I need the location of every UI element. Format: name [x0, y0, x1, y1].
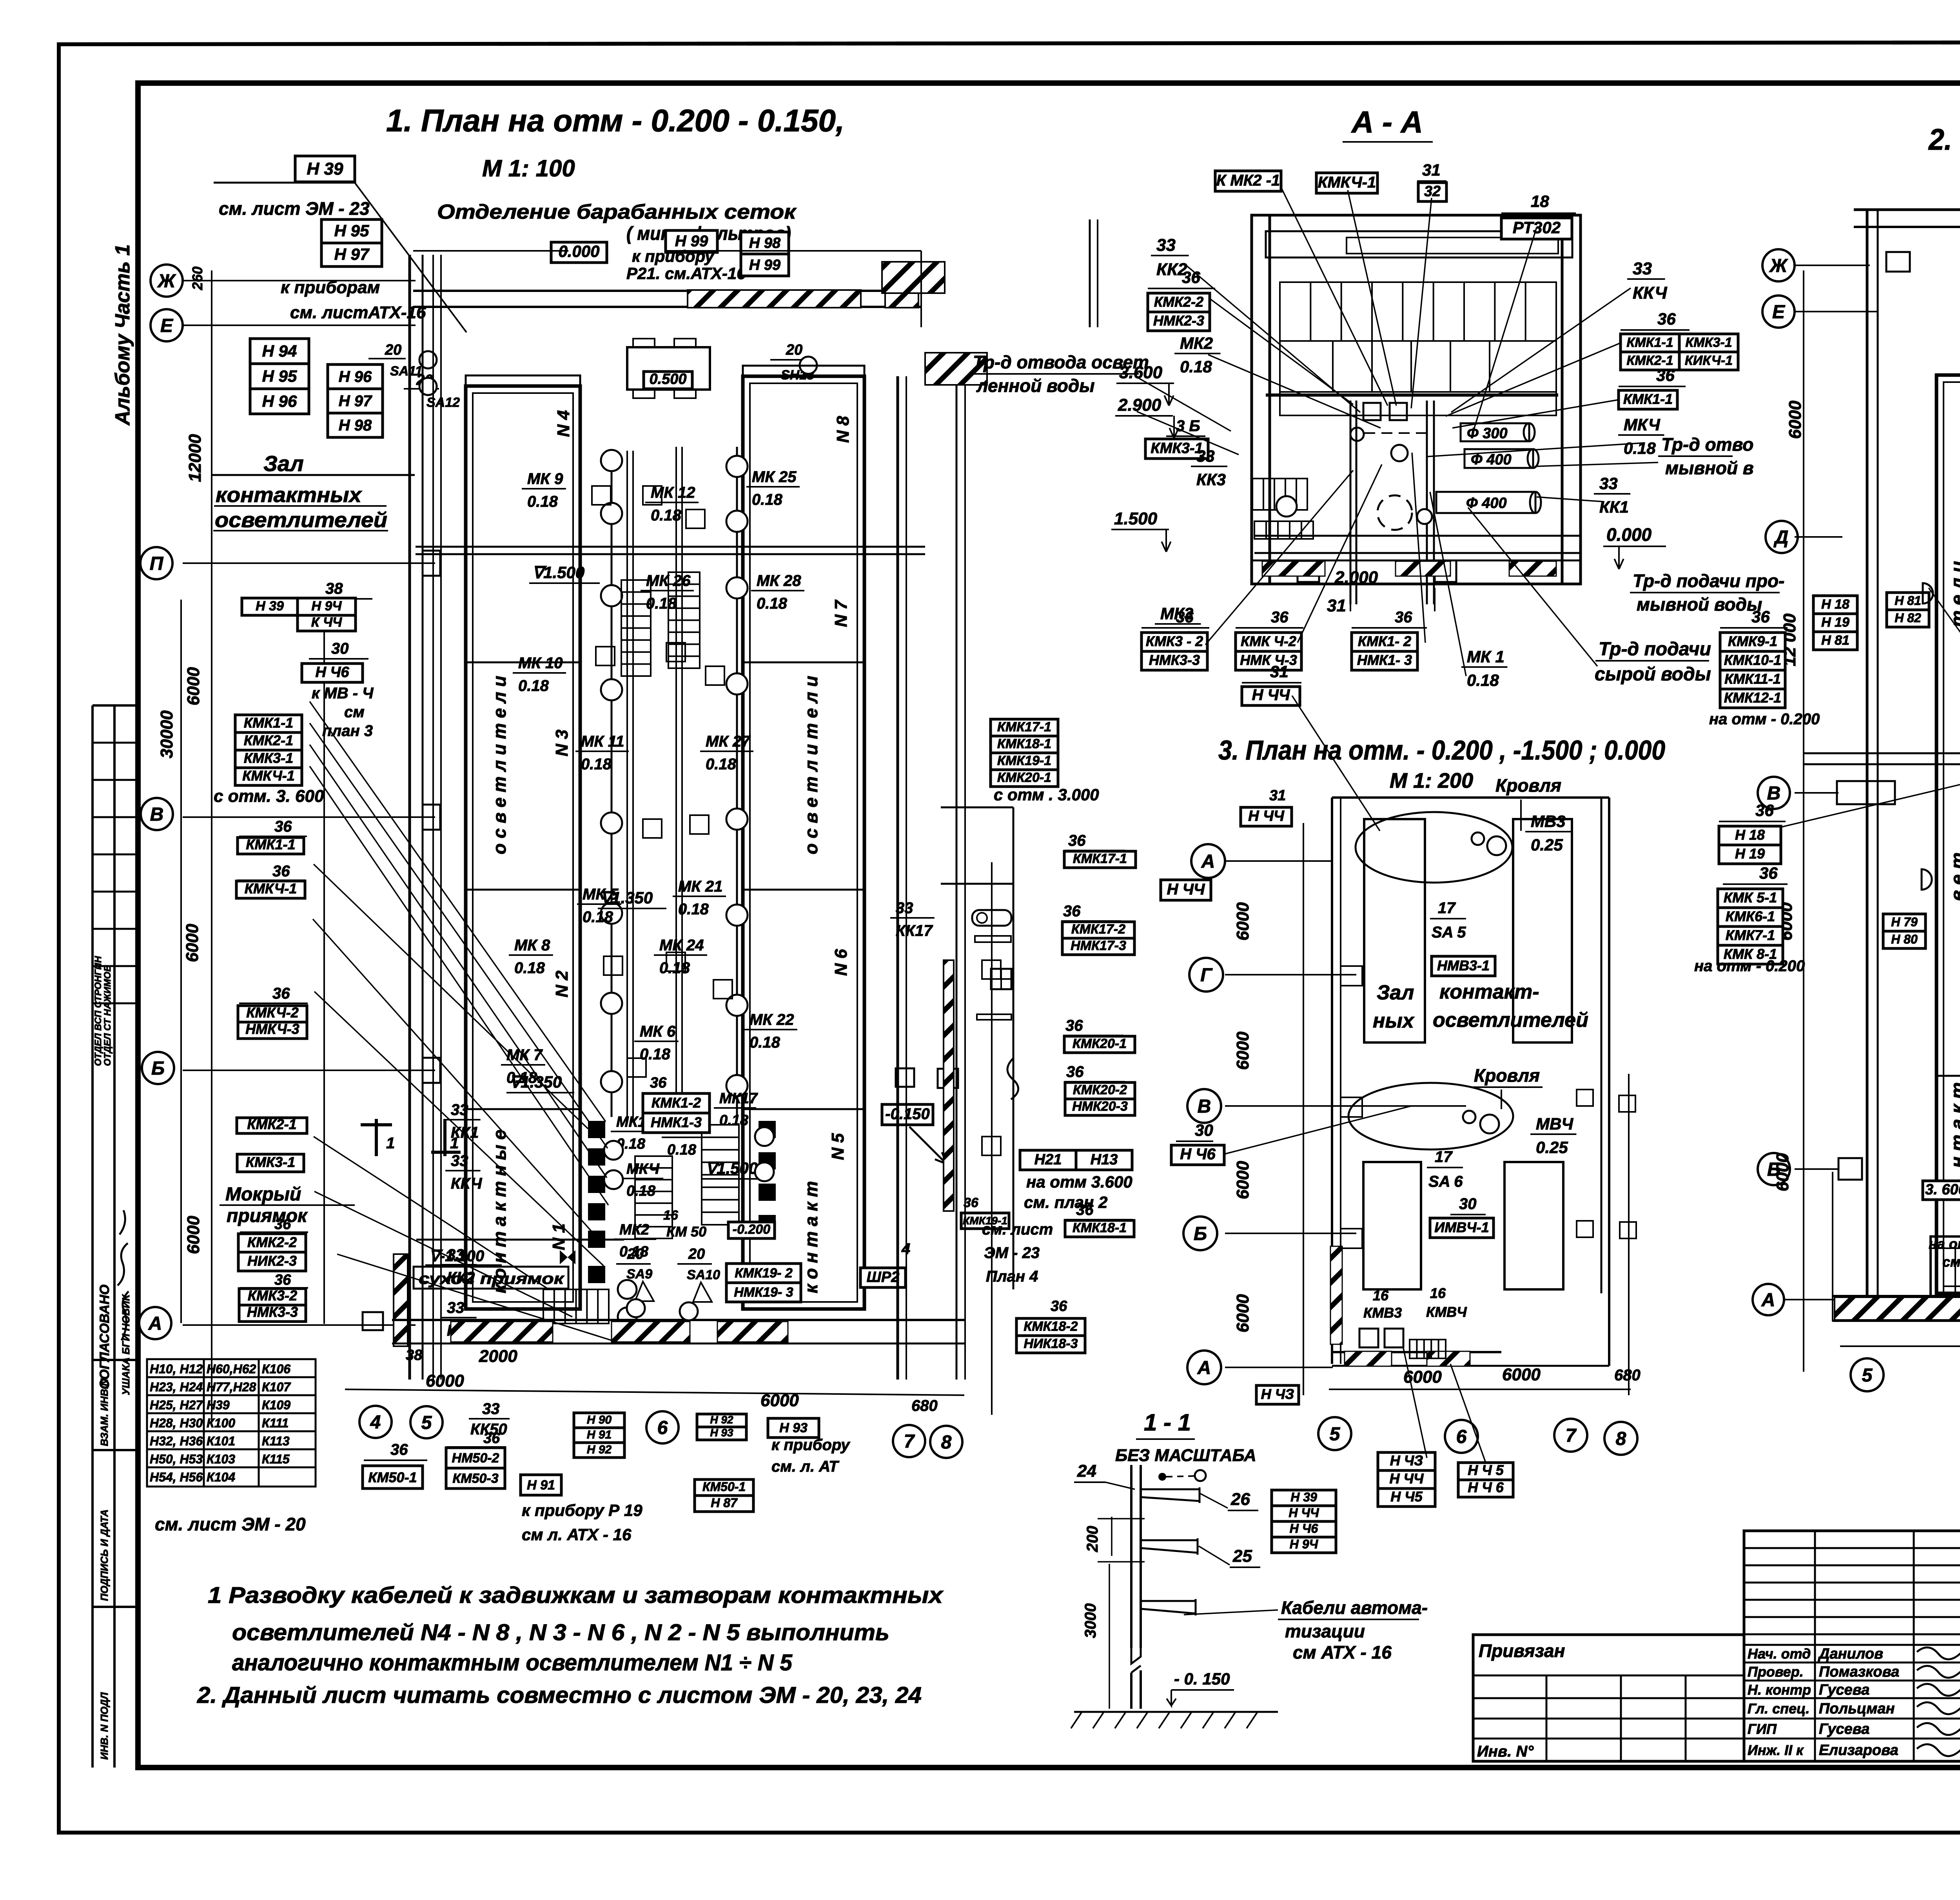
plan1 stair block C — [635, 1156, 672, 1238]
plan1 left hall dividers — [466, 662, 580, 664]
svg-text:38: 38 — [325, 580, 343, 597]
plan3 krovlya oval top — [1356, 812, 1512, 883]
plan1 top right wall verticals — [1089, 219, 1091, 327]
plan3 grid bubble A top — [1191, 844, 1225, 878]
detail boxes H39 H44 H46 H94 — [1272, 1490, 1336, 1506]
svg-text:ОТДЕЛ СТ НАЖИМОВ: ОТДЕЛ СТ НАЖИМОВ — [102, 965, 113, 1066]
svg-text:Б: Б — [151, 1058, 165, 1079]
svg-text:Кровля: Кровля — [1474, 1065, 1540, 1086]
svg-text:Е: Е — [1772, 302, 1786, 323]
svg-text:0.18: 0.18 — [527, 493, 558, 510]
plan2 grid bubble Б — [1758, 1153, 1790, 1185]
svg-text:Н ЧЧ: Н ЧЧ — [1252, 687, 1290, 704]
svg-text:Гл. спец.: Гл. спец. — [1748, 1701, 1809, 1717]
plan1 top inner line — [413, 250, 568, 252]
svg-text:МК 21: МК 21 — [678, 878, 723, 895]
svg-text:Н. контр: Н. контр — [1748, 1682, 1811, 1698]
plan1 black valve squares right — [759, 1121, 776, 1138]
svg-text:5: 5 — [1330, 1424, 1341, 1445]
svg-text:КМК18-1: КМК18-1 — [997, 736, 1051, 751]
svg-text:0.18: 0.18 — [640, 1046, 671, 1063]
svg-text:6: 6 — [1456, 1427, 1467, 1447]
plan3 H43 box — [1256, 1385, 1299, 1404]
svg-text:6000: 6000 — [184, 1216, 203, 1254]
svg-text:к МВ - Ч: к МВ - Ч — [312, 685, 374, 702]
svg-text:Н ЧЧ: Н ЧЧ — [1167, 881, 1205, 898]
svg-text:Тр-д отво: Тр-д отво — [1661, 434, 1753, 455]
svg-text:КМК1-1: КМК1-1 — [244, 714, 293, 731]
svg-text:КМК17-1: КМК17-1 — [1073, 851, 1127, 866]
svg-text:КМК1- 2: КМК1- 2 — [1358, 633, 1411, 649]
svg-text:31: 31 — [1269, 787, 1286, 804]
plan3 hall rect lower left — [1363, 1162, 1421, 1289]
svg-text:0.18: 0.18 — [646, 595, 677, 612]
svg-text:6: 6 — [657, 1418, 668, 1438]
svg-text:3. 600: 3. 600 — [1925, 1182, 1960, 1198]
svg-text:Н 92: Н 92 — [710, 1414, 733, 1426]
svg-text:12000: 12000 — [185, 434, 205, 482]
svg-text:КМК11-1: КМК11-1 — [1724, 671, 1781, 687]
plan2 H81 H82 boxes — [1887, 593, 1929, 610]
svg-text:КМК17-2: КМК17-2 — [1071, 922, 1125, 937]
svg-text:МВ3: МВ3 — [1531, 812, 1566, 830]
svg-text:0.18: 0.18 — [752, 491, 783, 508]
svg-text:Нач. отд: Нач. отд — [1748, 1646, 1811, 1662]
svg-text:на отм - 0.200: на отм - 0.200 — [1709, 711, 1820, 728]
svg-text:31: 31 — [1327, 596, 1346, 615]
svg-text:КМ50-1: КМ50-1 — [368, 1469, 417, 1485]
svg-text:Н13: Н13 — [1091, 1151, 1118, 1168]
svg-text:31: 31 — [1270, 662, 1289, 681]
svg-text:А: А — [1201, 851, 1215, 872]
plan2 left wall double — [1866, 210, 1869, 1321]
svg-text:ОТДЕЛ ВСП СТРОНГИН: ОТДЕЛ ВСП СТРОНГИН — [93, 956, 103, 1066]
svg-text:К115: К115 — [262, 1452, 290, 1466]
svg-text:НМК3-3: НМК3-3 — [1149, 652, 1200, 668]
plan1 bottom hatch pieces — [451, 1322, 553, 1342]
svg-text:0.000: 0.000 — [1606, 524, 1652, 545]
svg-text:к о н т а к т: к о н т а к т — [801, 1181, 821, 1293]
svg-text:М 1: 200: М 1: 200 — [1390, 769, 1473, 792]
svg-text:КМК19-1: КМК19-1 — [997, 753, 1051, 768]
svg-text:32: 32 — [1424, 183, 1441, 200]
svg-text:0.18: 0.18 — [706, 756, 737, 773]
plan3 left wall hatch — [1330, 1246, 1342, 1344]
svg-text:∇1.350: ∇1.350 — [510, 1073, 562, 1091]
svg-text:КМ 50: КМ 50 — [666, 1224, 706, 1240]
plan1 black bowtie symbols — [560, 1250, 575, 1264]
svg-text:на отм - 0.200: на отм - 0.200 — [1694, 957, 1805, 975]
svg-text:ВЗАМ. ИНВ.N: ВЗАМ. ИНВ.N — [98, 1378, 110, 1446]
svg-text:33: 33 — [482, 1400, 500, 1418]
svg-text:1. План на отм - 0.200 - 0: 1. План на отм - 0.200 - 0.150, — [386, 103, 844, 138]
plan1 column bubble 8 — [930, 1426, 962, 1458]
svg-text:КМК10-1: КМК10-1 — [1724, 652, 1781, 668]
svg-text:Н77,Н28: Н77,Н28 — [207, 1380, 256, 1394]
svg-text:с отм. 3. 600: с отм. 3. 600 — [214, 787, 324, 806]
svg-text:25: 25 — [1232, 1546, 1252, 1566]
svg-text:см. лист ЭМ - 20: см. лист ЭМ - 20 — [155, 1514, 306, 1534]
svg-text:N 5: N 5 — [828, 1133, 848, 1160]
plan1 stair block A — [621, 580, 651, 676]
detail cable hook symbols — [1158, 1473, 1166, 1481]
plan1 section cut marks 1-1 — [361, 1119, 461, 1156]
svg-text:36: 36 — [274, 1272, 291, 1288]
svg-text:6000: 6000 — [760, 1391, 799, 1410]
svg-text:КМК3-1: КМК3-1 — [246, 1154, 295, 1170]
svg-text:Н 39: Н 39 — [1290, 1490, 1317, 1504]
svg-text:6000: 6000 — [1786, 401, 1805, 439]
plan1 bottom KMK19-2 boxes — [726, 1264, 801, 1283]
svg-text:Н 95: Н 95 — [334, 221, 369, 240]
svg-text:КМК18-1: КМК18-1 — [1073, 1220, 1127, 1235]
svg-text:ИНВ. N ПОДЛ: ИНВ. N ПОДЛ — [98, 1692, 110, 1760]
svg-text:Н28, Н30: Н28, Н30 — [150, 1416, 203, 1430]
svg-text:МК 9: МК 9 — [527, 470, 563, 488]
svg-text:МК17: МК17 — [719, 1090, 758, 1107]
svg-text:0.18: 0.18 — [667, 1142, 697, 1158]
svg-text:Н 9Ч: Н 9Ч — [312, 599, 342, 614]
svg-text:36: 36 — [650, 1075, 667, 1091]
svg-text:ИМВЧ-1: ИМВЧ-1 — [1434, 1219, 1489, 1235]
svg-text:5: 5 — [421, 1412, 432, 1433]
svg-text:тизации: тизации — [1285, 1621, 1365, 1641]
svg-text:в е т: в е т — [1947, 852, 1960, 901]
svg-text:к о н т а к т н ы е: к о н т а к т н ы е — [489, 1129, 510, 1293]
svg-text:36: 36 — [1066, 1063, 1084, 1081]
svg-text:36: 36 — [1182, 268, 1200, 286]
svg-text:Н50, Н53: Н50, Н53 — [150, 1452, 203, 1466]
svg-text:Н 92: Н 92 — [587, 1443, 612, 1456]
svg-text:П: П — [150, 553, 164, 574]
plan1 bottom small square — [363, 1312, 383, 1330]
svg-text:КМКЧ-1: КМКЧ-1 — [245, 881, 297, 897]
svg-text:N 8: N 8 — [833, 416, 853, 443]
svg-text:КМК3-1: КМК3-1 — [244, 750, 293, 766]
plan1 grid bubble П — [140, 547, 172, 579]
svg-text:сухой приямок: сухой приямок — [419, 1270, 564, 1287]
svg-text:Д: Д — [1773, 527, 1789, 548]
plan3 motor MV4 — [1463, 1111, 1475, 1123]
title block outer — [1473, 1531, 1960, 1761]
svg-text:К100: К100 — [207, 1416, 235, 1430]
svg-text:М 1: 100: М 1: 100 — [482, 155, 575, 181]
plan3 grid bubble Г — [1189, 958, 1223, 992]
svg-text:7: 7 — [1566, 1425, 1577, 1446]
plan1 boxes H94 H95 H96 — [250, 339, 309, 364]
left sidebar column lines — [93, 705, 138, 1768]
svg-text:МК 8: МК 8 — [514, 937, 550, 954]
svg-text:Н 99: Н 99 — [749, 257, 780, 273]
plan1 boxes H96 H97 H98 — [328, 364, 383, 389]
svg-text:Н 87: Н 87 — [711, 1496, 738, 1510]
svg-text:мывной в: мывной в — [1665, 458, 1754, 478]
detail ground line with hatch — [1074, 1711, 1278, 1713]
plan3 hall rect lower right — [1504, 1162, 1563, 1289]
plan2 grid bubble Д — [1766, 521, 1798, 553]
plan3 right squares on wall — [1577, 1090, 1593, 1106]
svg-text:НМК20-3: НМК20-3 — [1072, 1099, 1128, 1114]
plan1 left dimension line vertical — [211, 270, 212, 1423]
svg-text:Н ЧЧ: Н ЧЧ — [1289, 1506, 1319, 1520]
svg-text:26: 26 — [1230, 1490, 1250, 1509]
svg-text:8: 8 — [1616, 1429, 1626, 1449]
plan2 dim vertical line — [1803, 270, 1804, 1372]
svg-text:Н 97: Н 97 — [339, 393, 372, 410]
svg-text:приямок: приямок — [227, 1206, 308, 1226]
svg-text:Н 79: Н 79 — [1891, 915, 1918, 929]
svg-text:Н Ч6: Н Ч6 — [1180, 1146, 1216, 1163]
svg-text:4: 4 — [370, 1412, 381, 1433]
svg-text:6000: 6000 — [426, 1371, 464, 1391]
plan1 row lines from bubbles — [183, 281, 435, 1325]
svg-text:Р21. см.АТХ-16: Р21. см.АТХ-16 — [626, 264, 746, 283]
plan3 right cable line — [1628, 1074, 1630, 1395]
svg-text:36: 36 — [1176, 609, 1194, 626]
svg-text:0.18: 0.18 — [719, 1112, 749, 1129]
plan1 leader lines from left margin to center — [310, 183, 612, 1340]
plan1 bottom H92 H93 boxes — [697, 1414, 746, 1427]
plan1 right cable vertical — [991, 862, 993, 1415]
svg-text:6000: 6000 — [1502, 1365, 1541, 1384]
svg-text:КМКЧ-2: КМКЧ-2 — [246, 1004, 299, 1021]
svg-text:Отделение барабанных сеток: Отделение барабанных сеток — [437, 201, 797, 223]
svg-text:Тр-д подачи про-: Тр-д подачи про- — [1633, 571, 1784, 591]
svg-text:КМК2-2: КМК2-2 — [247, 1234, 297, 1250]
svg-text:2. План на отм. 3. 600: 2. План на отм. 3. 600 — [1928, 123, 1960, 156]
sidebar signatures scribble — [118, 1210, 129, 1340]
svg-text:36: 36 — [274, 818, 292, 835]
svg-text:см АТХ - 16: см АТХ - 16 — [1293, 1642, 1392, 1662]
svg-text:Помазкова: Помазкова — [1819, 1664, 1899, 1680]
svg-text:6000: 6000 — [183, 924, 202, 962]
section gate squares — [1363, 403, 1381, 420]
svg-text:см л. АТХ - 16: см л. АТХ - 16 — [522, 1525, 632, 1544]
svg-text:0.18: 0.18 — [659, 959, 690, 977]
plan1 side room zigzag break — [1007, 1058, 1018, 1099]
svg-text:6000: 6000 — [1233, 1161, 1252, 1199]
svg-text:- 0. 150: - 0. 150 — [1174, 1670, 1230, 1688]
plan1 level -0.150 box — [882, 1104, 933, 1125]
svg-text:см: см — [344, 703, 365, 721]
svg-text:Н 39: Н 39 — [307, 160, 343, 179]
svg-text:контакт-: контакт- — [1439, 981, 1539, 1003]
svg-text:МК 6: МК 6 — [640, 1023, 676, 1040]
section inner grid top — [1280, 282, 1556, 415]
svg-text:Н 18: Н 18 — [1821, 597, 1849, 612]
svg-text:МК 1: МК 1 — [1467, 647, 1504, 666]
svg-text:МК 28: МК 28 — [757, 572, 801, 589]
plan1 top right hatched wall piece B — [925, 353, 987, 385]
svg-text:36: 36 — [1068, 832, 1086, 849]
svg-text:мывной воды: мывной воды — [1637, 594, 1762, 615]
svg-text:6000: 6000 — [184, 667, 203, 705]
plan3 dim vertical line — [1303, 823, 1304, 1395]
plan1 black valve squares left — [588, 1121, 605, 1138]
plan1 sukhoy priyamok floor line — [416, 1239, 624, 1241]
svg-text:КМК20-2: КМК20-2 — [1073, 1082, 1127, 1097]
svg-text:36: 36 — [1065, 1017, 1083, 1034]
svg-text:НМК1- 3: НМК1- 3 — [1357, 652, 1412, 668]
plan1 stair block B — [668, 572, 700, 668]
svg-text:31: 31 — [1422, 161, 1441, 179]
plan1 bottom H93 box — [768, 1418, 819, 1438]
plan3 bubble 8 — [1604, 1422, 1637, 1455]
svg-text:План 4: План 4 — [986, 1268, 1038, 1285]
svg-text:НМК3-3: НМК3-3 — [247, 1304, 298, 1320]
plan2 diag leader top — [1929, 588, 1960, 760]
plan1 grid bubble А — [139, 1307, 171, 1339]
svg-text:Н 95: Н 95 — [262, 367, 297, 385]
svg-text:МК 24: МК 24 — [659, 937, 704, 954]
svg-text:Н21: Н21 — [1034, 1151, 1062, 1168]
svg-text:Альбому Часть 1: Альбому Часть 1 — [111, 244, 134, 426]
svg-text:аналогично контактным осв: аналогично контактным осветлителем N1 ÷ … — [232, 1650, 793, 1675]
svg-text:КМКЧ-1: КМКЧ-1 — [1318, 174, 1376, 191]
svg-text:3 Б: 3 Б — [1176, 417, 1200, 435]
svg-text:НМК17-3: НМК17-3 — [1071, 938, 1126, 953]
svg-text:КМК9-1: КМК9-1 — [1728, 633, 1777, 649]
svg-text:Н 97: Н 97 — [334, 245, 370, 263]
svg-text:N 7: N 7 — [831, 599, 851, 627]
svg-text:МК 11: МК 11 — [581, 733, 624, 750]
svg-text:Данилов: Данилов — [1818, 1646, 1883, 1662]
svg-text:Ж: Ж — [157, 271, 176, 292]
svg-text:Г: Г — [1200, 965, 1213, 986]
plan3 hall rect upper right — [1513, 819, 1572, 1042]
svg-text:Н ЧЗ: Н ЧЗ — [1390, 1452, 1423, 1469]
svg-text:КМК3-1: КМК3-1 — [1151, 440, 1203, 457]
svg-text:SA12: SA12 — [426, 395, 460, 410]
plan1 central pipe column left — [611, 451, 613, 1117]
svg-text:Н 91: Н 91 — [587, 1428, 612, 1441]
plan3 pilasters — [1341, 966, 1362, 986]
plan3 grid bubble Б — [1183, 1217, 1217, 1250]
svg-text:К МК2 -1: К МК2 -1 — [1216, 172, 1280, 189]
svg-text:МК2: МК2 — [619, 1222, 649, 1238]
plan2 left margin KMK5 stack — [1718, 889, 1783, 908]
svg-text:36: 36 — [1051, 1298, 1067, 1314]
section top beam band — [1266, 231, 1572, 257]
plan1 lower small circles — [604, 1141, 623, 1160]
svg-text:0.18: 0.18 — [678, 901, 709, 918]
svg-text:36: 36 — [1395, 609, 1412, 626]
plan1 side room pilaster square — [938, 1069, 958, 1088]
plan1 column bubble 4 — [359, 1406, 392, 1438]
svg-text:Н 82: Н 82 — [1895, 611, 1921, 625]
plan2 grid bubble В — [1758, 777, 1790, 809]
svg-text:А: А — [1197, 1358, 1211, 1378]
svg-text:24: 24 — [1077, 1461, 1096, 1481]
plan3 motor MV3 — [1472, 832, 1484, 845]
svg-text:о с в е т л и т е л и: о с в е т л и т е л и — [801, 676, 821, 854]
plan3 bottom leaders — [1403, 1348, 1427, 1458]
plan1 right hall dividers — [743, 662, 864, 664]
plan3 box NMV3-1 — [1432, 956, 1495, 976]
plan3 label H44 top leader — [1241, 807, 1292, 826]
plan1 left hall outer — [466, 386, 580, 1309]
plan3 top wall — [1332, 796, 1609, 799]
svg-text:Инв. N°: Инв. N° — [1477, 1743, 1534, 1760]
section bottom floor lines — [1254, 535, 1580, 537]
plan1 level -0.200 box — [728, 1222, 775, 1238]
plan2 bottom wall hatch band — [1833, 1295, 1960, 1297]
svg-text:N 1: N 1 — [549, 1224, 568, 1250]
svg-text:осветлителей: осветлителей — [215, 508, 387, 532]
svg-text:Н 98: Н 98 — [749, 235, 781, 251]
plan1 boxes H98 H99 right — [741, 232, 789, 254]
svg-text:на отм - 0.200: на отм - 0.200 — [1929, 1236, 1960, 1252]
svg-text:КМ50-3: КМ50-3 — [452, 1471, 498, 1486]
svg-text:-0.150: -0.150 — [885, 1105, 929, 1122]
plan2 H79 H80 boxes — [1883, 914, 1926, 931]
plan1 stair block D — [702, 1125, 739, 1225]
section valve circles — [1391, 445, 1408, 461]
plan3 bubble 7 — [1554, 1419, 1587, 1452]
svg-text:КМВЧ: КМВЧ — [1426, 1304, 1467, 1320]
plan1 right hall outer — [743, 376, 864, 1309]
title block signatures scribbles — [1917, 1648, 1960, 1756]
svg-text:КМК20-1: КМК20-1 — [1073, 1036, 1127, 1051]
svg-text:36: 36 — [1063, 903, 1081, 920]
plan1 top right hatched wall piece A — [882, 262, 945, 293]
svg-text:Н25, Н27: Н25, Н27 — [150, 1398, 203, 1412]
svg-text:НМК Ч-3: НМК Ч-3 — [1240, 652, 1297, 668]
svg-text:∇1.500: ∇1.500 — [706, 1159, 758, 1177]
svg-text:МКЧ: МКЧ — [626, 1161, 660, 1177]
svg-text:1: 1 — [386, 1135, 395, 1152]
svg-text:Н Ч 6: Н Ч 6 — [1468, 1479, 1504, 1496]
svg-text:БЕЗ МАСШТАБА: БЕЗ МАСШТАБА — [1115, 1446, 1256, 1465]
plan1 small equipment rects — [592, 486, 611, 505]
svg-text:КИКЧ-1: КИКЧ-1 — [1685, 353, 1733, 368]
svg-text:Н Ч5: Н Ч5 — [1390, 1488, 1423, 1505]
plan2 grid bubble Е — [1762, 296, 1795, 328]
plan1 wall hatch bottom left — [394, 1254, 408, 1346]
svg-text:SA 6: SA 6 — [1428, 1173, 1463, 1190]
svg-text:НМК1-3: НМК1-3 — [651, 1114, 702, 1130]
svg-text:1.500: 1.500 — [1114, 509, 1158, 528]
svg-text:33: 33 — [451, 1152, 468, 1169]
svg-text:К109: К109 — [262, 1398, 290, 1412]
svg-text:36: 36 — [1751, 607, 1770, 626]
plan3 grid bubble А bottom — [1187, 1351, 1221, 1384]
plan1 right walls — [897, 376, 899, 1380]
plan3 krovlya oval mid — [1348, 1083, 1513, 1149]
plan2 corner pilasters — [1886, 252, 1910, 272]
svg-text:2000: 2000 — [479, 1347, 517, 1366]
svg-text:0.18: 0.18 — [514, 959, 545, 977]
svg-text:2.000: 2.000 — [1334, 568, 1378, 587]
svg-text:36: 36 — [1755, 801, 1774, 819]
svg-text:К101: К101 — [207, 1434, 235, 1448]
plan1 H21 H13 boxes — [1020, 1150, 1076, 1170]
plan1 column bubble 6 — [646, 1411, 679, 1443]
svg-text:ленной воды: ленной воды — [976, 375, 1095, 396]
svg-text:Н 19: Н 19 — [1821, 615, 1849, 630]
svg-text:о с в е т л и т е л и: о с в е т л и т е л и — [489, 676, 510, 854]
section lower squares — [1298, 560, 1319, 582]
svg-text:36: 36 — [483, 1430, 500, 1447]
svg-text:МВЧ: МВЧ — [1536, 1115, 1573, 1133]
svg-text:Н 39: Н 39 — [256, 599, 284, 614]
svg-text:см. план 2: см. план 2 — [1024, 1193, 1107, 1211]
svg-text:К ЧЧ: К ЧЧ — [311, 615, 342, 630]
svg-text:Мокрый: Мокрый — [225, 1184, 301, 1205]
svg-text:КК1: КК1 — [1599, 498, 1629, 516]
plan2 label 3.600 box — [1923, 1181, 1960, 1200]
plan1 text sukhoy priyamok box — [414, 1267, 568, 1289]
